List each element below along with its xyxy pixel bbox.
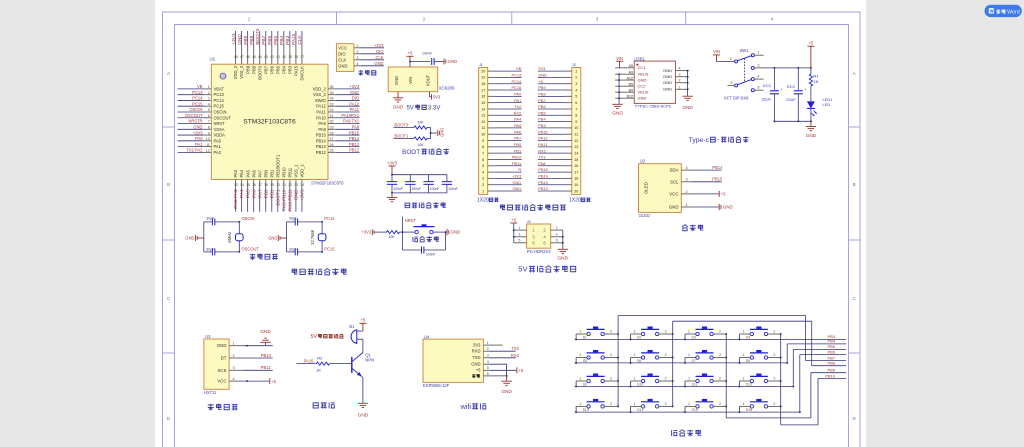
svg-text:CLK: CLK (376, 55, 384, 60)
svg-text:S1: S1 (583, 336, 587, 340)
svg-text:6: 6 (575, 101, 577, 105)
svg-text:39: 39 (288, 55, 292, 59)
svg-text:GND: GND (451, 230, 461, 235)
svg-text:PB14: PB14 (712, 165, 723, 170)
svg-text:NRST: NRST (405, 218, 417, 223)
svg-text:10: 10 (574, 126, 578, 130)
svg-text:PB3: PB3 (287, 65, 292, 73)
svg-text:GND: GND (260, 329, 271, 334)
svg-text:2: 2 (556, 226, 558, 230)
svg-text:46: 46 (246, 55, 250, 59)
button S11 left pin drop wire (684, 381, 686, 388)
svg-text:2: 2 (719, 402, 721, 406)
header J1 pin 11 net PA5 (481, 123, 521, 130)
svg-text:B1: B1 (349, 324, 355, 329)
regulator VOUT to 3V3 net (430, 92, 442, 100)
svg-text:TYPEC-25BD-8CP6: TYPEC-25BD-8CP6 (635, 104, 672, 109)
matrix row 3 wire (575, 386, 794, 388)
button S1 column junction (617, 333, 619, 335)
svg-text:100nF: 100nF (393, 187, 403, 191)
svg-text:12: 12 (574, 139, 578, 143)
svg-text:PA12: PA12 (316, 104, 326, 109)
matrix column 2 wire (672, 321, 674, 406)
MCU top pin 47 VSS_3 wire + net GND (237, 31, 244, 79)
svg-text:NPN: NPN (365, 358, 374, 363)
USB1 right ground symbol (682, 96, 693, 110)
svg-text:GND: GND (237, 34, 243, 45)
HX711 pin 3 SCK (217, 366, 243, 373)
svg-text:6: 6 (487, 372, 489, 376)
svg-text:PB12: PB12 (261, 365, 272, 370)
matrix row4 riser to PB6 (799, 355, 801, 414)
J3 pin 4 wire right (543, 233, 562, 240)
svg-text:OSCIN: OSCIN (242, 216, 255, 221)
svg-text:SWIO: SWIO (315, 98, 326, 103)
svg-text:18: 18 (574, 177, 578, 181)
svg-text:S10: S10 (637, 383, 643, 387)
svg-text:GND: GND (185, 236, 194, 241)
svg-text:PB15: PB15 (712, 177, 723, 182)
svg-text:3: 3 (482, 177, 484, 181)
svg-text:wifi: wifi (460, 402, 472, 411)
NRST net label vertical wire (402, 217, 416, 233)
svg-text:17: 17 (481, 88, 485, 92)
svg-text:22: 22 (288, 183, 292, 187)
VIN power port at SW1 (713, 49, 735, 61)
svg-text:SDA: SDA (669, 168, 678, 173)
svg-text:1: 1 (742, 377, 744, 381)
svg-text:VIN: VIN (408, 77, 413, 84)
svg-text:3: 3 (233, 366, 235, 370)
svg-text:TX1: TX1 (538, 155, 545, 160)
svg-text:10K: 10K (417, 143, 424, 147)
MCU bottom pin 14 PA4 wire + net PA4 (239, 169, 245, 211)
svg-text:S7: S7 (692, 359, 696, 363)
resistor 10K reset (387, 231, 400, 240)
svg-text:GND: GND (806, 133, 817, 138)
header J2 pin 3 net +5 (538, 79, 578, 86)
MCU top pin 42 PB6 wire + net PB6 (267, 31, 274, 74)
matrix column 4 wire (780, 334, 782, 425)
svg-text:BOOT: BOOT (402, 149, 420, 156)
svg-text:GND: GND (394, 76, 399, 85)
svg-text:GND: GND (294, 189, 300, 200)
header J2 pin 5 net PB8 (538, 91, 578, 98)
matrix bottom loop wire col3 to PB9 (726, 373, 811, 418)
header J1 pin 2 net GND (482, 180, 522, 187)
svg-text:28: 28 (330, 131, 334, 135)
svg-text:VSS_2: VSS_2 (313, 92, 326, 97)
svg-text:PB7: PB7 (261, 35, 267, 44)
matrix row 4 wire (575, 411, 800, 413)
header J2 pin 18 net PB14 (538, 174, 579, 181)
svg-text:+3V3: +3V3 (231, 33, 237, 45)
+5 power port LED rail (807, 41, 814, 68)
resistor R2 1K (316, 356, 352, 373)
svg-text:40: 40 (282, 55, 286, 59)
svg-text:PB0: PB0 (263, 169, 268, 177)
header J2 label 1X20 (CJK paizhen) (569, 198, 590, 204)
net label OSCIN (242, 216, 255, 221)
svg-text:1X20: 1X20 (569, 198, 581, 204)
svg-text:20: 20 (574, 189, 578, 193)
net label PB10 wire (818, 373, 846, 378)
svg-text:30pF: 30pF (206, 216, 214, 220)
svg-text:4: 4 (556, 233, 558, 237)
svg-text:13: 13 (234, 183, 238, 187)
MCU top pin 45 PB8 wire + net PB8 (249, 31, 256, 74)
svg-text:PC14: PC14 (511, 79, 522, 84)
svg-text:2: 2 (665, 330, 667, 334)
header J2 pin 1 net 3V3 (538, 66, 578, 73)
svg-text:PC13: PC13 (214, 92, 225, 97)
button S10 column junction (672, 380, 674, 382)
svg-text:11: 11 (574, 133, 578, 137)
net label PC14 (324, 216, 335, 221)
J3 pin 3 wire left (514, 233, 536, 240)
svg-text:PB9: PB9 (827, 368, 835, 373)
svg-text:10K: 10K (388, 235, 395, 239)
net label PB5 wire (793, 344, 846, 349)
USB1 right pin 3 GND (663, 73, 687, 79)
svg-text:J1: J1 (479, 62, 483, 67)
reset push button (414, 224, 435, 234)
svg-text:VBUS: VBUS (638, 72, 649, 77)
svg-text:GND: GND (440, 128, 445, 137)
svg-text:15: 15 (574, 158, 578, 162)
buzzer label (CJK) 5V youyuan fengmingqi (311, 334, 344, 340)
button S11 column junction (725, 380, 727, 382)
button S5 column junction (617, 357, 619, 359)
MCU bottom pin 17 PA7 wire + net PA7 (257, 169, 263, 211)
download port connector body (336, 44, 354, 72)
svg-text:S9: S9 (583, 383, 587, 387)
svg-text:PB1: PB1 (514, 148, 521, 153)
svg-text:PA6: PA6 (251, 189, 257, 198)
svg-text:4: 4 (357, 62, 359, 66)
header J2 pin 20 net PB12 (538, 186, 579, 193)
svg-text:1: 1 (579, 330, 581, 334)
svg-text:Word: Word (1007, 9, 1020, 15)
svg-text:U4: U4 (424, 334, 430, 339)
svg-text:PB12: PB12 (538, 186, 548, 191)
net label PB4 wire (787, 339, 846, 344)
ESP8266 pin 3 (472, 354, 489, 361)
header J1 pin 12 net PA4 (481, 117, 522, 124)
filter caps title (CJK) xinpian lvbo dianrong (405, 202, 446, 208)
svg-text:RXD: RXD (472, 349, 481, 354)
svg-text:42: 42 (270, 55, 274, 59)
button S16 (739, 399, 780, 412)
button S4 (739, 327, 780, 340)
svg-text:PB13: PB13 (349, 142, 360, 147)
filter caps bottom rail wire (391, 192, 447, 194)
connector USB1 TYPE-C body (634, 56, 675, 108)
matrix row3 riser to PB5 (792, 349, 794, 387)
svg-text:PB0: PB0 (514, 142, 522, 147)
svg-text:BOOT0: BOOT0 (394, 122, 409, 127)
svg-text:29: 29 (330, 125, 334, 129)
svg-text:8MHz: 8MHz (227, 232, 232, 243)
svg-text:DIO: DIO (352, 96, 359, 101)
svg-text:S12: S12 (746, 383, 752, 387)
svg-text:PA11: PA11 (350, 107, 360, 112)
svg-text:2: 2 (686, 190, 688, 194)
matrix column 1 wire (617, 316, 619, 407)
header J3 HDR2X3 body (527, 219, 551, 248)
button S14 (631, 399, 673, 412)
svg-text:VOUT: VOUT (425, 74, 430, 86)
button S7 column junction (725, 357, 727, 359)
transistor Q1 NPN (352, 353, 374, 377)
svg-text:BOOT0: BOOT0 (255, 28, 261, 45)
button S1 left pin drop wire (575, 334, 577, 340)
net label PB9 wire (811, 368, 846, 373)
svg-text:PB0: PB0 (263, 189, 269, 198)
svg-text:R: R (518, 167, 521, 172)
wire buzzer to transistor collector (362, 339, 364, 352)
svg-text:ESP8266-12F: ESP8266-12F (423, 383, 450, 388)
net label BOOT1 wire (393, 133, 414, 138)
MCU top pin 48 VDD_3 wire + net +3V3 (231, 31, 238, 79)
svg-text:PC15: PC15 (511, 85, 521, 90)
wire +5 to VIN (409, 61, 411, 68)
svg-text:9: 9 (575, 120, 577, 124)
svg-text:PA0: PA0 (195, 136, 203, 141)
svg-text:32: 32 (330, 108, 334, 112)
svg-text:+3V3: +3V3 (387, 160, 398, 165)
svg-text:1: 1 (519, 226, 521, 230)
svg-text:GND: GND (723, 205, 733, 210)
svg-text:16: 16 (574, 164, 578, 168)
svg-text:RX2 PA3: RX2 PA3 (233, 189, 239, 209)
MCU left pin 1 VBAT wire + net VB (178, 84, 225, 91)
svg-text:4: 4 (686, 166, 688, 170)
svg-text:8: 8 (208, 125, 210, 129)
svg-text:PB5: PB5 (538, 110, 545, 115)
OLED pin 2 VCC (669, 190, 692, 197)
LED rail ground (806, 121, 817, 138)
LED1 diode (807, 86, 833, 121)
power +3V3 port filter rail (387, 160, 398, 175)
svg-text:OSCIN: OSCIN (214, 109, 227, 114)
MCU bottom pin 21 PB10 wire + net TX3 PB10 (281, 167, 287, 212)
svg-text:RX2: RX2 (514, 110, 522, 115)
svg-text:PA1: PA1 (514, 98, 521, 103)
svg-text:PC15: PC15 (324, 247, 335, 252)
svg-text:PB1: PB1 (269, 169, 274, 177)
capacitor EC1 22uF (762, 68, 784, 121)
svg-text:35: 35 (330, 91, 334, 95)
ESP8266 pin 6 (472, 372, 489, 378)
ESP8266 pin 4 (471, 360, 489, 367)
svg-text:13: 13 (481, 114, 485, 118)
svg-text:PB15: PB15 (349, 130, 360, 135)
svg-text:30pF: 30pF (289, 247, 297, 251)
svg-text:PB12: PB12 (316, 150, 327, 155)
button S15 column junction (725, 405, 727, 407)
button S13 (576, 399, 618, 412)
svg-text:NRSTR: NRSTR (188, 119, 202, 124)
svg-text:PB9: PB9 (245, 65, 250, 73)
svg-text:PB4: PB4 (281, 65, 286, 73)
BOOT junction wires to GND port (427, 128, 445, 139)
MCU right pin 27 PB14 wire + net PB14 (316, 136, 360, 143)
svg-text:PA15: PA15 (291, 33, 297, 45)
svg-text:PB13: PB13 (261, 353, 272, 358)
svg-text:1X20: 1X20 (477, 198, 489, 204)
HX711 DT wire to PB13 (243, 353, 273, 358)
svg-text:1: 1 (742, 402, 744, 406)
svg-text:1: 1 (575, 69, 577, 73)
svg-text:3V3: 3V3 (433, 95, 441, 100)
header J1 pin 20 net VB (481, 66, 522, 73)
button S9 left pin drop wire (575, 381, 577, 388)
MCU bottom pin 16 PA6 wire + net PA6 (251, 169, 257, 211)
matrix top loop wire col1 to PB7 (618, 316, 806, 361)
svg-text:SW1: SW1 (740, 48, 750, 53)
MCU left pin 9 VDDA wire + net +3V3 (178, 130, 226, 137)
svg-text:30pF: 30pF (289, 216, 297, 220)
button S8 left pin drop wire (738, 358, 740, 364)
svg-text:19: 19 (270, 183, 274, 187)
svg-text:GND: GND (663, 87, 672, 92)
svg-text:2: 2 (208, 91, 210, 95)
svg-text:STM32F103C8T6: STM32F103C8T6 (243, 119, 296, 126)
svg-text:16: 16 (252, 183, 256, 187)
module U3 HX711 body (204, 334, 229, 395)
svg-text:44: 44 (258, 55, 262, 59)
button S4 column junction (780, 333, 782, 335)
svg-text:4: 4 (482, 170, 484, 174)
svg-text:21: 21 (282, 183, 286, 187)
resistor R1 1K (809, 68, 819, 86)
svg-text:PB10: PB10 (281, 167, 286, 178)
button S10 (631, 374, 673, 387)
svg-text:GND: GND (358, 413, 369, 418)
svg-text:14: 14 (240, 183, 244, 187)
button S8 column junction (780, 357, 782, 359)
button S6 (631, 350, 673, 363)
capacitor EC2 22uF (786, 68, 807, 121)
svg-text:2: 2 (679, 79, 681, 83)
HX711 SCK wire to PB12 (243, 365, 273, 370)
svg-text:100nF: 100nF (422, 52, 432, 56)
crystal circuit title (CJK) jingzhen dianlu (250, 254, 278, 260)
svg-text:U2: U2 (640, 158, 646, 163)
svg-text:12: 12 (481, 120, 485, 124)
capacitor 30pF top (8MHz) (204, 216, 241, 225)
svg-text:1: 1 (487, 341, 489, 345)
svg-text:+5: +5 (538, 79, 542, 84)
matrix keyboard title (CJK) juzhen jianpan (672, 430, 702, 437)
header J2 pin 9 net PB4 (538, 117, 578, 124)
USB1 left pin B9 VBUS (615, 88, 649, 94)
svg-text:GND: GND (682, 105, 693, 110)
svg-text:3: 3 (686, 178, 688, 182)
svg-text:CC1: CC1 (638, 65, 647, 70)
USB1 left pin A5 CC1 (615, 64, 646, 70)
minimal system title (CJK) danpianji zuixiao xitong (292, 268, 347, 275)
ESP8266 RXD wire to TX2 (490, 346, 520, 351)
svg-text:VDD_2: VDD_2 (313, 86, 327, 91)
header J1 pin 8 net PB0 (482, 142, 522, 149)
svg-text:EC1: EC1 (763, 83, 772, 88)
svg-text:1: 1 (742, 330, 744, 334)
svg-text:PA8: PA8 (538, 161, 545, 166)
svg-text:1: 1 (688, 330, 690, 334)
svg-text:2: 2 (730, 57, 732, 61)
svg-text:S14: S14 (637, 408, 643, 412)
svg-text:GND: GND (393, 105, 404, 110)
svg-text:J3: J3 (527, 219, 531, 224)
header J2 pin 16 net PA8 (538, 161, 579, 168)
svg-text:3: 3 (487, 354, 489, 358)
svg-text:GND: GND (612, 111, 623, 116)
MCU right pin 32 PA11 wire + net PA11 (316, 107, 359, 114)
svg-text:PB6: PB6 (827, 349, 835, 354)
svg-text:1: 1 (482, 189, 484, 193)
button S3 column junction (725, 333, 727, 335)
svg-text:VSSA: VSSA (214, 127, 225, 132)
svg-text:PA1: PA1 (195, 142, 203, 147)
MCU left pin 5 OSCIN wire + net OSCIN (178, 107, 227, 114)
svg-text:2: 2 (665, 402, 667, 406)
wire SW1 pin3 to power rail (764, 67, 812, 69)
svg-text:NRST: NRST (214, 121, 226, 126)
svg-text:DIO: DIO (376, 49, 383, 54)
svg-text:25: 25 (330, 149, 334, 153)
svg-text:GND: GND (501, 389, 512, 394)
svg-text:5V: 5V (518, 265, 528, 274)
svg-text:PB14: PB14 (538, 174, 548, 179)
MCU left pin 12 PA2 wire + net TX2 PA2 (178, 148, 222, 155)
header J1 pin 4 net R (482, 167, 522, 174)
svg-text:LED: LED (823, 102, 831, 107)
svg-text:5V: 5V (311, 334, 318, 340)
J3 right ground rail (557, 230, 568, 261)
svg-text:2: 2 (482, 183, 484, 187)
svg-text:PB15: PB15 (316, 133, 327, 138)
svg-text:+5: +5 (408, 51, 413, 56)
capacitor 100nF filter #3 (423, 175, 439, 193)
MCU bottom pin 13 PA3 wire + net RX2 PA3 (233, 169, 239, 211)
power +5 port above regulator (407, 51, 414, 62)
svg-text:+5: +5 (519, 368, 524, 373)
svg-text:+3V3: +3V3 (193, 130, 203, 135)
OLED GND wire to GND port (693, 204, 733, 210)
svg-text:22uF: 22uF (786, 97, 796, 102)
MCU left pin 2 PC13 wire + net PC13 (178, 90, 225, 97)
svg-text:43: 43 (264, 55, 268, 59)
svg-text:TX2 PA2: TX2 PA2 (186, 148, 203, 153)
svg-text:PA4: PA4 (239, 169, 244, 177)
svg-text:GND: GND (663, 68, 672, 73)
net label PB8 wire (812, 361, 846, 366)
convert to Word button (985, 5, 1022, 17)
button S16 column junction (780, 405, 782, 407)
svg-text:PB6: PB6 (538, 104, 545, 109)
svg-text:+3V3: +3V3 (374, 43, 384, 48)
capacitor 30pF bottom (32.768K) (287, 247, 324, 255)
svg-text:38: 38 (294, 55, 298, 59)
svg-text:S3: S3 (692, 336, 696, 340)
svg-text:PB8: PB8 (251, 65, 256, 73)
button S7 (685, 350, 726, 363)
svg-text:A12: A12 (627, 76, 633, 80)
MCU top pin 39 PB3 wire + net PB3 (285, 31, 292, 74)
GND port right of capacitor (444, 59, 457, 65)
